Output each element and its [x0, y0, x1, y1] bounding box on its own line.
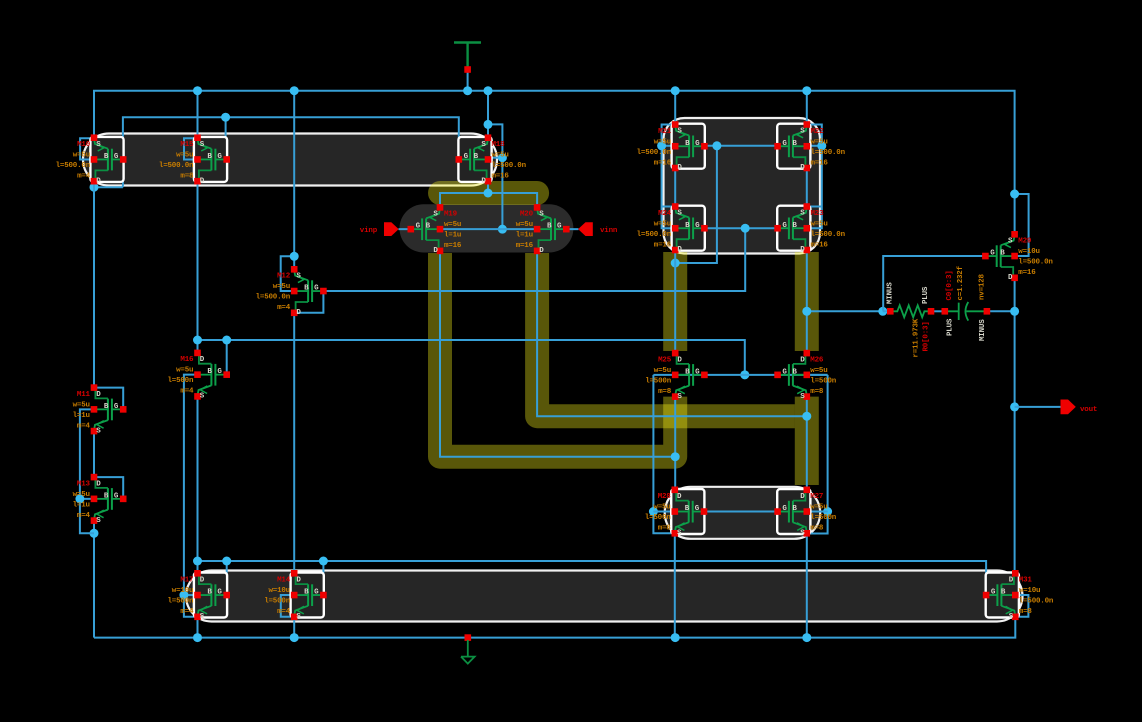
transistor M21 — [637, 121, 708, 172]
svg-text:G: G — [782, 505, 787, 513]
svg-text:B: B — [792, 505, 797, 513]
svg-text:B: B — [207, 368, 212, 376]
svg-text:l=1u: l=1u — [516, 232, 533, 240]
svg-text:nv=128: nv=128 — [979, 273, 987, 300]
svg-text:l=500n: l=500n — [810, 377, 837, 385]
wire M16/M17 bulk rail — [179, 375, 197, 617]
svg-text:w=5u: w=5u — [653, 504, 670, 512]
wire M25 bulk rail down — [649, 375, 675, 533]
svg-text:D: D — [677, 164, 682, 172]
svg-text:w=5u: w=5u — [492, 152, 509, 160]
transistor M19 — [408, 204, 462, 255]
transistor M10 — [56, 134, 127, 185]
wire M20 drain cascode net — [537, 251, 811, 490]
net highlight: left quad-to-M25 net — [663, 252, 687, 351]
svg-text:G: G — [464, 153, 469, 161]
svg-text:S: S — [1009, 613, 1014, 621]
transistor M31 — [983, 570, 1054, 621]
svg-text:l=500n: l=500n — [264, 598, 291, 606]
svg-text:G: G — [695, 368, 700, 376]
svg-text:M31: M31 — [1019, 577, 1033, 585]
transistor M13 — [73, 474, 127, 525]
wire left rail M10-M11-M13 — [90, 181, 99, 637]
svg-text:S: S — [200, 141, 205, 149]
svg-text:l=500.0n: l=500.0n — [637, 149, 672, 157]
wire M29 gate to compensation node — [883, 256, 985, 311]
svg-text:D: D — [1009, 577, 1014, 585]
svg-text:l=500n: l=500n — [645, 377, 672, 385]
svg-text:B: B — [685, 368, 690, 376]
VDD supply symbol — [454, 43, 481, 73]
svg-text:S: S — [677, 210, 682, 218]
svg-text:w=5u: w=5u — [73, 152, 90, 160]
svg-text:G: G — [695, 505, 700, 513]
svg-text:m=4: m=4 — [277, 304, 291, 312]
svg-text:D: D — [481, 177, 486, 185]
wire M19 drain cascode net — [440, 251, 680, 490]
svg-text:D: D — [677, 246, 682, 254]
svg-text:l=500.0n: l=500.0n — [811, 231, 846, 239]
svg-text:S: S — [96, 141, 101, 149]
svg-text:w=10u: w=10u — [1018, 248, 1040, 256]
svg-text:S: S — [296, 273, 301, 281]
svg-text:B: B — [547, 223, 552, 231]
svg-text:m=4: m=4 — [277, 608, 291, 616]
svg-text:S: S — [800, 530, 805, 538]
svg-text:D: D — [296, 577, 301, 585]
wire quad left column — [674, 168, 676, 207]
transistor M22 — [774, 121, 845, 172]
svg-text:G: G — [416, 223, 421, 231]
svg-text:m=16: m=16 — [654, 159, 672, 167]
svg-text:M21: M21 — [658, 128, 672, 136]
svg-text:M18: M18 — [492, 141, 506, 149]
svg-text:D: D — [800, 164, 805, 172]
svg-text:B: B — [685, 222, 690, 230]
transistor M23 — [774, 203, 845, 254]
svg-text:C0[0:3]: C0[0:3] — [946, 270, 954, 300]
net highlight: M19 drain cascode net — [440, 253, 675, 457]
svg-text:R0[0:3]: R0[0:3] — [923, 321, 931, 351]
svg-text:l=500.0n: l=500.0n — [256, 294, 291, 302]
svg-text:M23: M23 — [811, 210, 825, 218]
wire M14 bulk loop — [281, 595, 294, 617]
wire M12 drain rail to M14 — [293, 313, 295, 574]
svg-text:M14: M14 — [277, 577, 291, 585]
wire gnd bottom bus — [94, 617, 1015, 642]
svg-text:B: B — [474, 153, 479, 161]
svg-text:MINUS: MINUS — [979, 319, 987, 341]
svg-text:l=500.0n: l=500.0n — [56, 162, 91, 170]
svg-text:w=5u: w=5u — [811, 220, 828, 228]
transistor M11 — [73, 384, 127, 435]
svg-text:S: S — [677, 393, 682, 401]
svg-text:m=4: m=4 — [77, 512, 91, 520]
svg-text:l=500.0n: l=500.0n — [492, 162, 527, 170]
svg-text:r=11.973K: r=11.973K — [913, 318, 921, 357]
group stadium: bottom row M17/M14/M31 — [186, 571, 1023, 622]
svg-text:G: G — [217, 589, 222, 597]
svg-text:m=4: m=4 — [77, 422, 91, 430]
svg-text:G: G — [114, 492, 119, 500]
wire quad top gate pair — [671, 141, 778, 267]
svg-text:l=500n: l=500n — [167, 598, 194, 606]
svg-text:D: D — [677, 356, 682, 364]
svg-text:m=16: m=16 — [654, 241, 672, 249]
svg-text:w=5u: w=5u — [73, 401, 90, 409]
group box: cascode quad M21/M22/M24/M23 — [664, 118, 821, 254]
transistor M15 — [159, 134, 230, 185]
wire vinp to M19 gate — [399, 228, 411, 230]
svg-text:m=16: m=16 — [492, 173, 510, 181]
svg-text:w=5u: w=5u — [176, 152, 193, 160]
svg-text:D: D — [539, 247, 544, 255]
svg-text:D: D — [800, 246, 805, 254]
svg-text:B: B — [792, 368, 797, 376]
svg-text:D: D — [800, 356, 805, 364]
svg-text:M29: M29 — [1018, 238, 1032, 246]
svg-text:m=8: m=8 — [658, 525, 672, 533]
svg-text:l=500.0n: l=500.0n — [1018, 259, 1053, 267]
wire M12 gate net to quad lower gates — [323, 228, 745, 291]
transistor M14 — [264, 570, 327, 621]
wire quad bottom gate pair — [704, 224, 777, 233]
transistor M25 — [645, 350, 708, 401]
svg-text:B: B — [207, 153, 212, 161]
net highlight: diff-pair tail net — [440, 181, 537, 205]
port vinp — [360, 222, 399, 236]
svg-text:w=5u: w=5u — [516, 221, 533, 229]
svg-text:G: G — [990, 250, 995, 258]
svg-text:G: G — [314, 589, 319, 597]
wire M18 bulk + diffpair bulk rail — [484, 120, 507, 234]
wire M31 bulk loop — [1015, 595, 1028, 617]
svg-text:vout: vout — [1080, 406, 1097, 414]
transistor M17 — [167, 570, 230, 621]
group stadium: top current-mirror row M10/M15/M18 — [83, 134, 497, 186]
svg-text:D: D — [1008, 274, 1013, 282]
svg-text:B: B — [104, 492, 109, 500]
svg-text:m=16: m=16 — [444, 242, 462, 250]
svg-text:S: S — [433, 211, 438, 219]
selection boxes around mirrored devices — [90, 124, 1019, 618]
svg-text:D: D — [96, 480, 101, 488]
svg-text:w=5u: w=5u — [273, 283, 290, 291]
svg-text:w=10u: w=10u — [172, 587, 194, 595]
svg-text:l=1u: l=1u — [73, 501, 90, 509]
svg-text:w=5u: w=5u — [810, 367, 827, 375]
transistor M24 — [637, 203, 708, 254]
svg-text:M17: M17 — [180, 577, 193, 585]
svg-text:S: S — [800, 393, 805, 401]
svg-text:B: B — [1001, 589, 1006, 597]
svg-text:D: D — [296, 309, 301, 317]
port vinn — [578, 222, 618, 236]
transistor M12 — [256, 266, 327, 317]
wire M26 bulk rail down — [807, 375, 832, 534]
svg-text:M11: M11 — [77, 391, 91, 399]
svg-text:M26: M26 — [810, 356, 824, 364]
wire RC link — [883, 310, 945, 312]
svg-text:G: G — [695, 222, 700, 230]
svg-text:S: S — [200, 613, 205, 621]
svg-text:B: B — [685, 505, 690, 513]
svg-text:B: B — [207, 589, 212, 597]
svg-text:G: G — [114, 403, 119, 411]
svg-text:D: D — [433, 247, 438, 255]
svg-text:m=8: m=8 — [180, 173, 194, 181]
svg-text:l=500.0n: l=500.0n — [811, 149, 846, 157]
svg-text:l=500.0n: l=500.0n — [637, 231, 672, 239]
svg-text:M16: M16 — [180, 356, 194, 364]
svg-text:G: G — [695, 140, 700, 148]
svg-text:S: S — [200, 393, 205, 401]
svg-text:D: D — [677, 493, 682, 501]
svg-text:w=10u: w=10u — [1019, 587, 1041, 595]
svg-text:m=16: m=16 — [516, 242, 534, 250]
svg-text:D: D — [96, 177, 101, 185]
group stadium: bottom mirror pair M28/M27 — [665, 487, 821, 539]
svg-text:m=4: m=4 — [180, 388, 194, 396]
port vout — [1061, 400, 1098, 415]
wire M11 diode connection — [94, 388, 123, 410]
wire quad right bulk rail — [807, 125, 827, 229]
svg-text:G: G — [782, 368, 787, 376]
svg-text:D: D — [800, 493, 805, 501]
svg-text:D: D — [200, 177, 205, 185]
transistor M20 — [516, 204, 570, 255]
svg-text:G: G — [314, 285, 319, 293]
svg-text:M25: M25 — [658, 356, 672, 364]
wire M10 bulk loop — [80, 138, 94, 159]
wire bottom mirror gate row — [653, 511, 827, 513]
svg-text:l=500.0n: l=500.0n — [1019, 598, 1054, 606]
wire quad to M25 — [674, 250, 676, 353]
transistor M18 — [456, 134, 527, 185]
ground symbol — [461, 634, 475, 663]
svg-text:M20: M20 — [520, 211, 534, 219]
wire M28 source to gnd bus — [674, 533, 676, 637]
svg-text:M27: M27 — [810, 493, 823, 501]
svg-text:l=1u: l=1u — [73, 412, 90, 420]
svg-text:D: D — [200, 577, 205, 585]
svg-text:S: S — [677, 530, 682, 538]
svg-text:G: G — [217, 153, 222, 161]
svg-text:B: B — [426, 223, 431, 231]
svg-text:l=500.0n: l=500.0n — [159, 162, 194, 170]
svg-text:w=5u: w=5u — [811, 138, 828, 146]
svg-text:w=5u: w=5u — [444, 221, 461, 229]
wire quad left bulk rail — [657, 125, 675, 229]
svg-text:PLUS: PLUS — [922, 286, 930, 304]
svg-text:B: B — [304, 285, 309, 293]
net highlight: M20 drain cascode net horizontal — [537, 253, 795, 416]
svg-text:G: G — [557, 223, 562, 231]
svg-text:w=5u: w=5u — [810, 504, 827, 512]
svg-text:m=4: m=4 — [77, 173, 91, 181]
svg-text:w=5u: w=5u — [73, 491, 90, 499]
svg-text:m=16: m=16 — [811, 241, 829, 249]
svg-text:G: G — [782, 222, 787, 230]
svg-text:M13: M13 — [77, 480, 91, 488]
wire quad to M26 and RC tap — [802, 250, 887, 353]
svg-text:D: D — [200, 356, 205, 364]
svg-text:S: S — [481, 141, 486, 149]
svg-text:w=5u: w=5u — [654, 220, 671, 228]
svg-text:S: S — [96, 427, 101, 435]
svg-text:M19: M19 — [444, 211, 458, 219]
wire VDD top bus — [94, 73, 1015, 270]
svg-text:M15: M15 — [180, 141, 194, 149]
wire M13 diode connection — [94, 477, 123, 499]
svg-text:B: B — [792, 140, 797, 148]
net highlight: M26 source to M27 drain leg — [795, 397, 819, 485]
svg-text:S: S — [677, 128, 682, 136]
svg-text:M12: M12 — [277, 273, 291, 281]
svg-text:S: S — [539, 211, 544, 219]
transistor M29 — [982, 231, 1053, 282]
svg-text:B: B — [304, 589, 309, 597]
svg-text:S: S — [296, 613, 301, 621]
svg-text:G: G — [991, 589, 996, 597]
group stadium: differential pair M19/M20 — [400, 204, 574, 252]
svg-text:G: G — [217, 368, 222, 376]
svg-text:l=500n: l=500n — [167, 377, 194, 385]
wire vinn to M20 gate — [566, 228, 578, 230]
svg-text:m=16: m=16 — [1018, 269, 1036, 277]
svg-text:B: B — [104, 153, 109, 161]
svg-text:m=4: m=4 — [180, 608, 194, 616]
wire M29 bulk loop — [1010, 190, 1029, 257]
wire M27 source to gnd bus — [806, 533, 808, 637]
svg-text:vinn: vinn — [600, 227, 618, 235]
svg-text:l=500n: l=500n — [810, 514, 837, 522]
svg-text:l=500n: l=500n — [645, 514, 672, 522]
wire M12 source loop — [281, 252, 299, 291]
wire diff pair tail net — [440, 181, 537, 207]
wire top gate bus (M10 diode) — [90, 113, 459, 192]
wire M16 source rail — [197, 396, 199, 573]
wire vout tap — [1015, 406, 1061, 408]
wire M15 bulk loop — [184, 138, 198, 159]
wire quad right column — [806, 168, 808, 207]
transistor M26 — [774, 350, 837, 401]
wire bottom gate bus — [193, 557, 986, 596]
wire M11/M13 bulk rail — [75, 409, 94, 533]
svg-text:w=5u: w=5u — [654, 138, 671, 146]
transistor M16 — [167, 350, 230, 401]
svg-text:M10: M10 — [77, 141, 91, 149]
svg-text:w=5u: w=5u — [654, 367, 671, 375]
svg-text:B: B — [104, 403, 109, 411]
svg-text:S: S — [800, 128, 805, 136]
resistor R0[0:3] — [887, 282, 935, 358]
svg-text:m=8: m=8 — [1019, 608, 1033, 616]
wire M12 diode connection — [294, 291, 323, 313]
net highlight: right quad-to-M26 net — [795, 252, 819, 351]
wire M15 drain to M16 bias bus — [193, 181, 749, 379]
svg-text:G: G — [782, 140, 787, 148]
svg-text:S: S — [96, 517, 101, 525]
capacitor C0[0:3] — [942, 265, 991, 341]
svg-text:m=8: m=8 — [810, 388, 824, 396]
wire diff pair bulks — [440, 228, 537, 230]
transistor M27 — [774, 487, 837, 538]
svg-text:w=10u: w=10u — [268, 587, 290, 595]
svg-text:M28: M28 — [658, 493, 672, 501]
svg-text:m=16: m=16 — [811, 159, 829, 167]
svg-text:G: G — [114, 153, 119, 161]
svg-text:S: S — [1008, 238, 1013, 246]
transistor M28 — [645, 487, 708, 538]
svg-text:m=8: m=8 — [658, 388, 672, 396]
svg-text:M22: M22 — [811, 128, 825, 136]
svg-text:PLUS: PLUS — [947, 318, 955, 336]
svg-text:S: S — [800, 210, 805, 218]
svg-text:B: B — [1000, 250, 1005, 258]
svg-text:m=8: m=8 — [810, 525, 824, 533]
svg-text:w=5u: w=5u — [176, 367, 193, 375]
wire vout rail — [987, 278, 1019, 574]
svg-text:D: D — [96, 391, 101, 399]
svg-text:l=1u: l=1u — [444, 232, 461, 240]
svg-text:M24: M24 — [658, 210, 672, 218]
svg-text:vinp: vinp — [360, 227, 378, 235]
svg-text:c=1.232f: c=1.232f — [957, 265, 965, 300]
svg-text:B: B — [685, 140, 690, 148]
svg-text:B: B — [792, 222, 797, 230]
wire M25/M26 gate row — [653, 374, 827, 376]
svg-text:MINUS: MINUS — [887, 282, 895, 304]
